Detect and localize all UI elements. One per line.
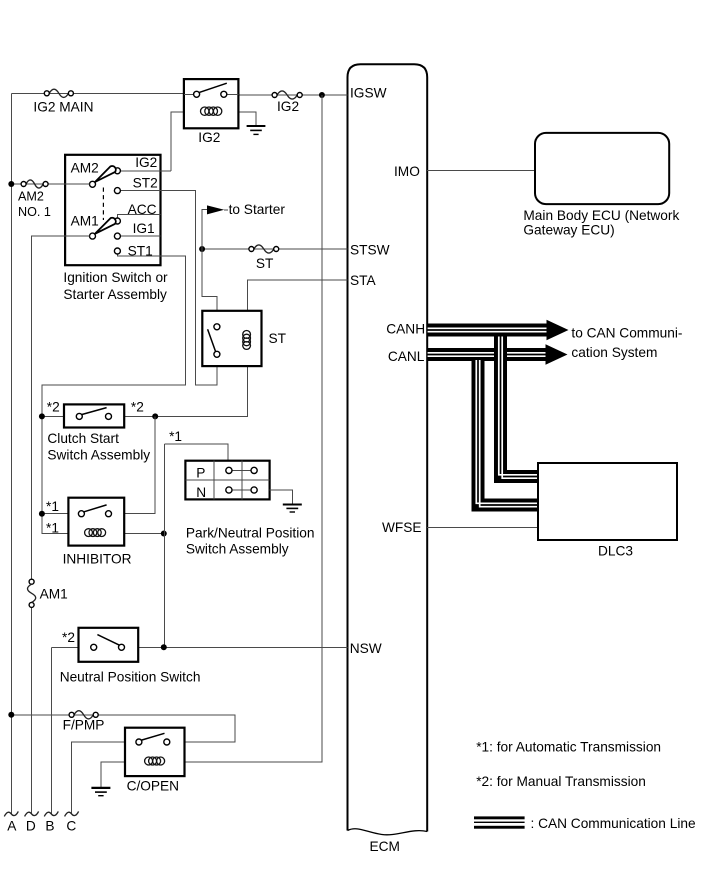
arrow to Starter [207, 202, 285, 217]
svg-text:P: P [196, 465, 205, 480]
svg-text:Ignition Switch or: Ignition Switch or [63, 270, 168, 285]
svg-text:IG2 MAIN: IG2 MAIN [33, 99, 93, 114]
fuse IG2 [272, 91, 302, 114]
svg-text:IGSW: IGSW [350, 85, 387, 100]
svg-text:DLC3: DLC3 [598, 544, 633, 559]
dashed linkage between AM2 and AM1 levers [102, 188, 104, 221]
svg-text:*1: *1 [46, 499, 59, 514]
wire IMO to Main Body ECU [427, 170, 535, 172]
contact AM1 pivot [71, 213, 99, 239]
svg-text:CANL: CANL [388, 349, 425, 364]
CAN line CANL horizontal [428, 353, 546, 356]
svg-text:ST: ST [256, 256, 274, 271]
svg-text:NSW: NSW [350, 641, 382, 656]
svg-text:to Starter: to Starter [229, 202, 286, 217]
wire IG2 MAIN feed [11, 92, 196, 94]
svg-text:*2: *2 [131, 400, 144, 415]
svg-text:cation System: cation System [571, 345, 657, 360]
svg-text:to CAN Communi-: to CAN Communi- [571, 326, 682, 341]
wire ST junction to relay switch top contact [202, 249, 217, 324]
wire AM1 to D rail [32, 236, 90, 579]
wire relay IG2 to ECM IGSW [224, 94, 348, 96]
svg-text:*2: *2 [47, 400, 60, 415]
svg-text:STSW: STSW [350, 243, 390, 258]
svg-text:IG1: IG1 [133, 221, 155, 236]
node A-AM2 junction [8, 181, 14, 187]
CAN line CANH horizontal [428, 328, 547, 331]
CAN branch CANL to DLC3 [476, 360, 538, 507]
svg-text:Clutch Start: Clutch Start [47, 431, 119, 446]
wire *1 branch to park/neutral switch [164, 444, 228, 461]
svg-text:ST2: ST2 [133, 175, 158, 190]
neutral position switch [51, 628, 347, 662]
CAN arrow CANL [546, 344, 568, 365]
ground for relay IG2 coil [247, 126, 266, 134]
svg-text:AM1: AM1 [71, 213, 99, 228]
svg-text:A: A [7, 819, 17, 834]
svg-text:Neutral Position Switch: Neutral Position Switch [60, 670, 201, 685]
contact IG1 of ignition switch [114, 221, 160, 239]
svg-text:WFSE: WFSE [382, 520, 422, 535]
svg-text:N: N [196, 485, 206, 500]
terminal D break [25, 811, 39, 816]
contact ST1 of ignition switch [42, 243, 186, 533]
wire battery feed A rail [10, 93, 12, 814]
svg-text:CANH: CANH [386, 321, 425, 336]
fuse AM1 (vertical) [28, 579, 68, 607]
svg-text:NO. 1: NO. 1 [18, 205, 51, 219]
wire AM2 feed [11, 183, 89, 185]
contact IG2 of ignition switch [114, 155, 170, 174]
svg-text:C: C [66, 819, 76, 834]
svg-text:C/OPEN: C/OPEN [127, 779, 179, 794]
svg-text:*1: *1 [169, 429, 182, 444]
wire C rail from C/OPEN switch [72, 742, 125, 814]
relay IG2 [171, 79, 256, 171]
node ST junction [199, 246, 205, 252]
CAN arrow CANH [547, 320, 569, 341]
contact ST2 of ignition switch [114, 175, 216, 385]
svg-text:D: D [26, 819, 36, 834]
svg-text:IG2: IG2 [277, 99, 299, 114]
Main Body ECU box [535, 133, 669, 204]
svg-text:: CAN Communication Line: : CAN Communication Line [531, 816, 696, 831]
ignition switch assembly box [65, 155, 160, 265]
node inhibitor left junction [39, 511, 45, 517]
svg-text:AM1: AM1 [40, 587, 68, 602]
svg-text:Switch Assembly: Switch Assembly [186, 542, 289, 557]
wire STSW from junction to ECM [202, 248, 347, 250]
ECM box [348, 64, 428, 835]
park/neutral position switch assembly [185, 461, 269, 500]
wire STA to ST relay coil [155, 280, 347, 417]
svg-text:AM2: AM2 [71, 160, 99, 175]
fuse F/PMP [63, 711, 105, 733]
svg-text:Starter Assembly: Starter Assembly [63, 287, 167, 302]
wire clutch junction down to inhibitor switch [112, 416, 156, 513]
svg-text:ST1: ST1 [128, 243, 153, 258]
node clutch right junction [152, 413, 158, 419]
svg-text:Main Body ECU (Network: Main Body ECU (Network [523, 208, 679, 223]
svg-text:IG2: IG2 [198, 130, 220, 145]
wire B rail [50, 647, 52, 814]
ground for C/OPEN coil [91, 788, 110, 796]
lever AM2 [95, 166, 116, 182]
DLC3 box [538, 463, 677, 540]
wire NSW rail [163, 444, 165, 647]
svg-text:*2: for Manual Transmission: *2: for Manual Transmission [476, 774, 646, 789]
node IGSW junction [319, 92, 325, 98]
svg-text:ACC: ACC [128, 202, 157, 217]
CAN branch CANH to DLC3 [499, 335, 538, 478]
svg-text:ECM: ECM [370, 839, 400, 854]
terminal A break [4, 811, 18, 816]
svg-text:IMO: IMO [394, 164, 420, 179]
svg-text:Park/Neutral Position: Park/Neutral Position [186, 526, 315, 541]
contact AM2 pivot [71, 160, 99, 187]
svg-text:AM2: AM2 [18, 189, 44, 203]
contact ACC of ignition switch [114, 202, 160, 224]
svg-text:ST: ST [269, 331, 287, 346]
svg-text:STA: STA [350, 273, 376, 288]
wire WFSE to DLC3 [427, 526, 538, 528]
relay C/OPEN [125, 728, 185, 794]
fuse ST [249, 245, 279, 271]
wire F/PMP feed from A rail [11, 715, 235, 742]
node NSW junction [161, 644, 167, 650]
wire IGSW junction down to C/OPEN coil [101, 95, 322, 787]
node clutch left junction [39, 413, 45, 419]
fuse AM2 NO. 1 [18, 180, 51, 219]
wire D rail lower [31, 607, 33, 813]
svg-text:*1: for Automatic Transmission: *1: for Automatic Transmission [476, 739, 661, 754]
wire to Starter branch [202, 210, 207, 249]
node inhibitor coil junction [161, 531, 167, 537]
svg-text:Switch Assembly: Switch Assembly [47, 448, 150, 463]
svg-text:Gateway ECU): Gateway ECU) [523, 222, 614, 237]
svg-text:*1: *1 [46, 521, 59, 536]
terminal B break [44, 811, 58, 816]
legend CAN line symbol [474, 816, 525, 828]
fuse IG2 MAIN [33, 89, 93, 114]
svg-text:IG2: IG2 [135, 155, 157, 170]
node A-F/PMP junction [8, 712, 14, 718]
ground for park/neutral switch [283, 505, 302, 513]
svg-text:*2: *2 [62, 630, 75, 645]
relay INHIBITOR [42, 498, 132, 567]
terminal C break [65, 811, 79, 816]
clutch start switch assembly [42, 400, 155, 428]
svg-text:B: B [45, 819, 54, 834]
wire park/neutral N row to ground [270, 490, 293, 504]
lever AM1 [95, 218, 116, 234]
svg-text:INHIBITOR: INHIBITOR [63, 552, 132, 567]
svg-text:F/PMP: F/PMP [63, 718, 105, 733]
relay ST [202, 311, 286, 366]
